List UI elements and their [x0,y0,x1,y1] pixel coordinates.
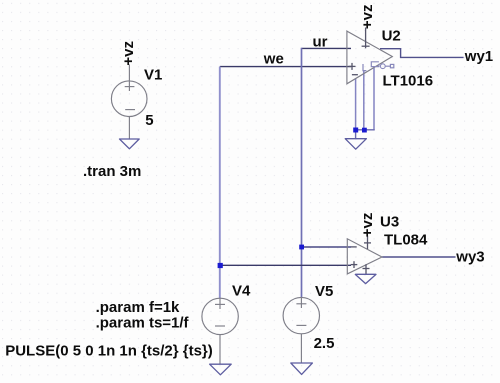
svg-text:V4: V4 [232,283,251,300]
wire ur vertical to V5 [301,48,303,298]
U3 non-inverting input marker [351,261,358,268]
U3 inverting input marker [351,246,357,248]
ground below V5 [291,363,313,374]
junction on we net at U3 input [218,263,223,268]
U2 latch pin L glyph [363,64,366,71]
U2 inverted output pin pad [390,64,393,67]
svg-text:V1: V1 [144,67,162,84]
wire we vertical to V4 [219,67,221,299]
svg-text:LT1016: LT1016 [383,73,434,90]
svg-text:PULSE(0 5 0 1n 1n {ts/2} {ts}): PULSE(0 5 0 1n 1n {ts/2} {ts}) [5,343,213,360]
svg-text:+vz: +vz [120,41,137,66]
voltage source V1 [111,64,147,138]
voltage source V5 [283,297,319,362]
svg-text:+vz: +vz [359,4,376,29]
wire U2 output wy1 [380,49,464,58]
wire U2 V- pin drop [355,79,357,130]
svg-text:.param ts=1/f: .param ts=1/f [96,315,190,332]
wire U3 output wy3 [382,256,456,258]
svg-text:2.5: 2.5 [314,335,335,352]
wire U3 inverting input [302,246,352,248]
svg-text:ur: ur [313,33,328,50]
svg-text:.param f=1k: .param f=1k [96,299,180,316]
svg-text:U3: U3 [380,213,399,230]
junction U2 latch to ground [362,128,367,133]
wire U2 ground bus [356,129,375,131]
ground below V4 [210,364,232,375]
ground below U2 [345,139,366,150]
U3 V- pin stub with minus [363,264,370,274]
svg-text:.tran 3m: .tran 3m [83,163,141,180]
svg-text:we: we [263,51,284,68]
U2 V- marker [352,74,358,76]
opamp U3 TL084 body [347,239,382,274]
svg-text:wy3: wy3 [455,248,484,265]
svg-text:V5: V5 [315,283,333,300]
wire U2 latch pin drop [363,71,365,130]
U2 gnd pin G glyph [371,62,379,67]
svg-text:U2: U2 [382,28,401,45]
wire U2 gnd pin drop [373,67,375,130]
junction on ur net at U3 input [299,245,304,250]
voltage source V4 [202,298,238,364]
svg-text:5: 5 [145,112,153,129]
ground below U3 [355,273,376,275]
wire we horizontal [220,66,351,68]
wire U3 non-inverting input [220,264,351,266]
U2 non-inverting input marker [349,63,356,70]
svg-text:TL084: TL084 [384,232,428,249]
junction U2 V- to ground [353,128,358,133]
svg-text:+vz: +vz [359,213,376,238]
U2 inverted output pin line [385,65,390,67]
wire U2 ground stub [355,130,357,139]
U2 V+ supply stub with plus [362,28,370,49]
U3 V+ supply stub with plus [364,236,371,249]
ground below V1 [120,139,140,149]
svg-text:wy1: wy1 [464,48,493,65]
wire ur horizontal [302,47,352,49]
U2 inverted output bubble [380,64,385,69]
comparator U2 LT1016 body [347,31,392,84]
